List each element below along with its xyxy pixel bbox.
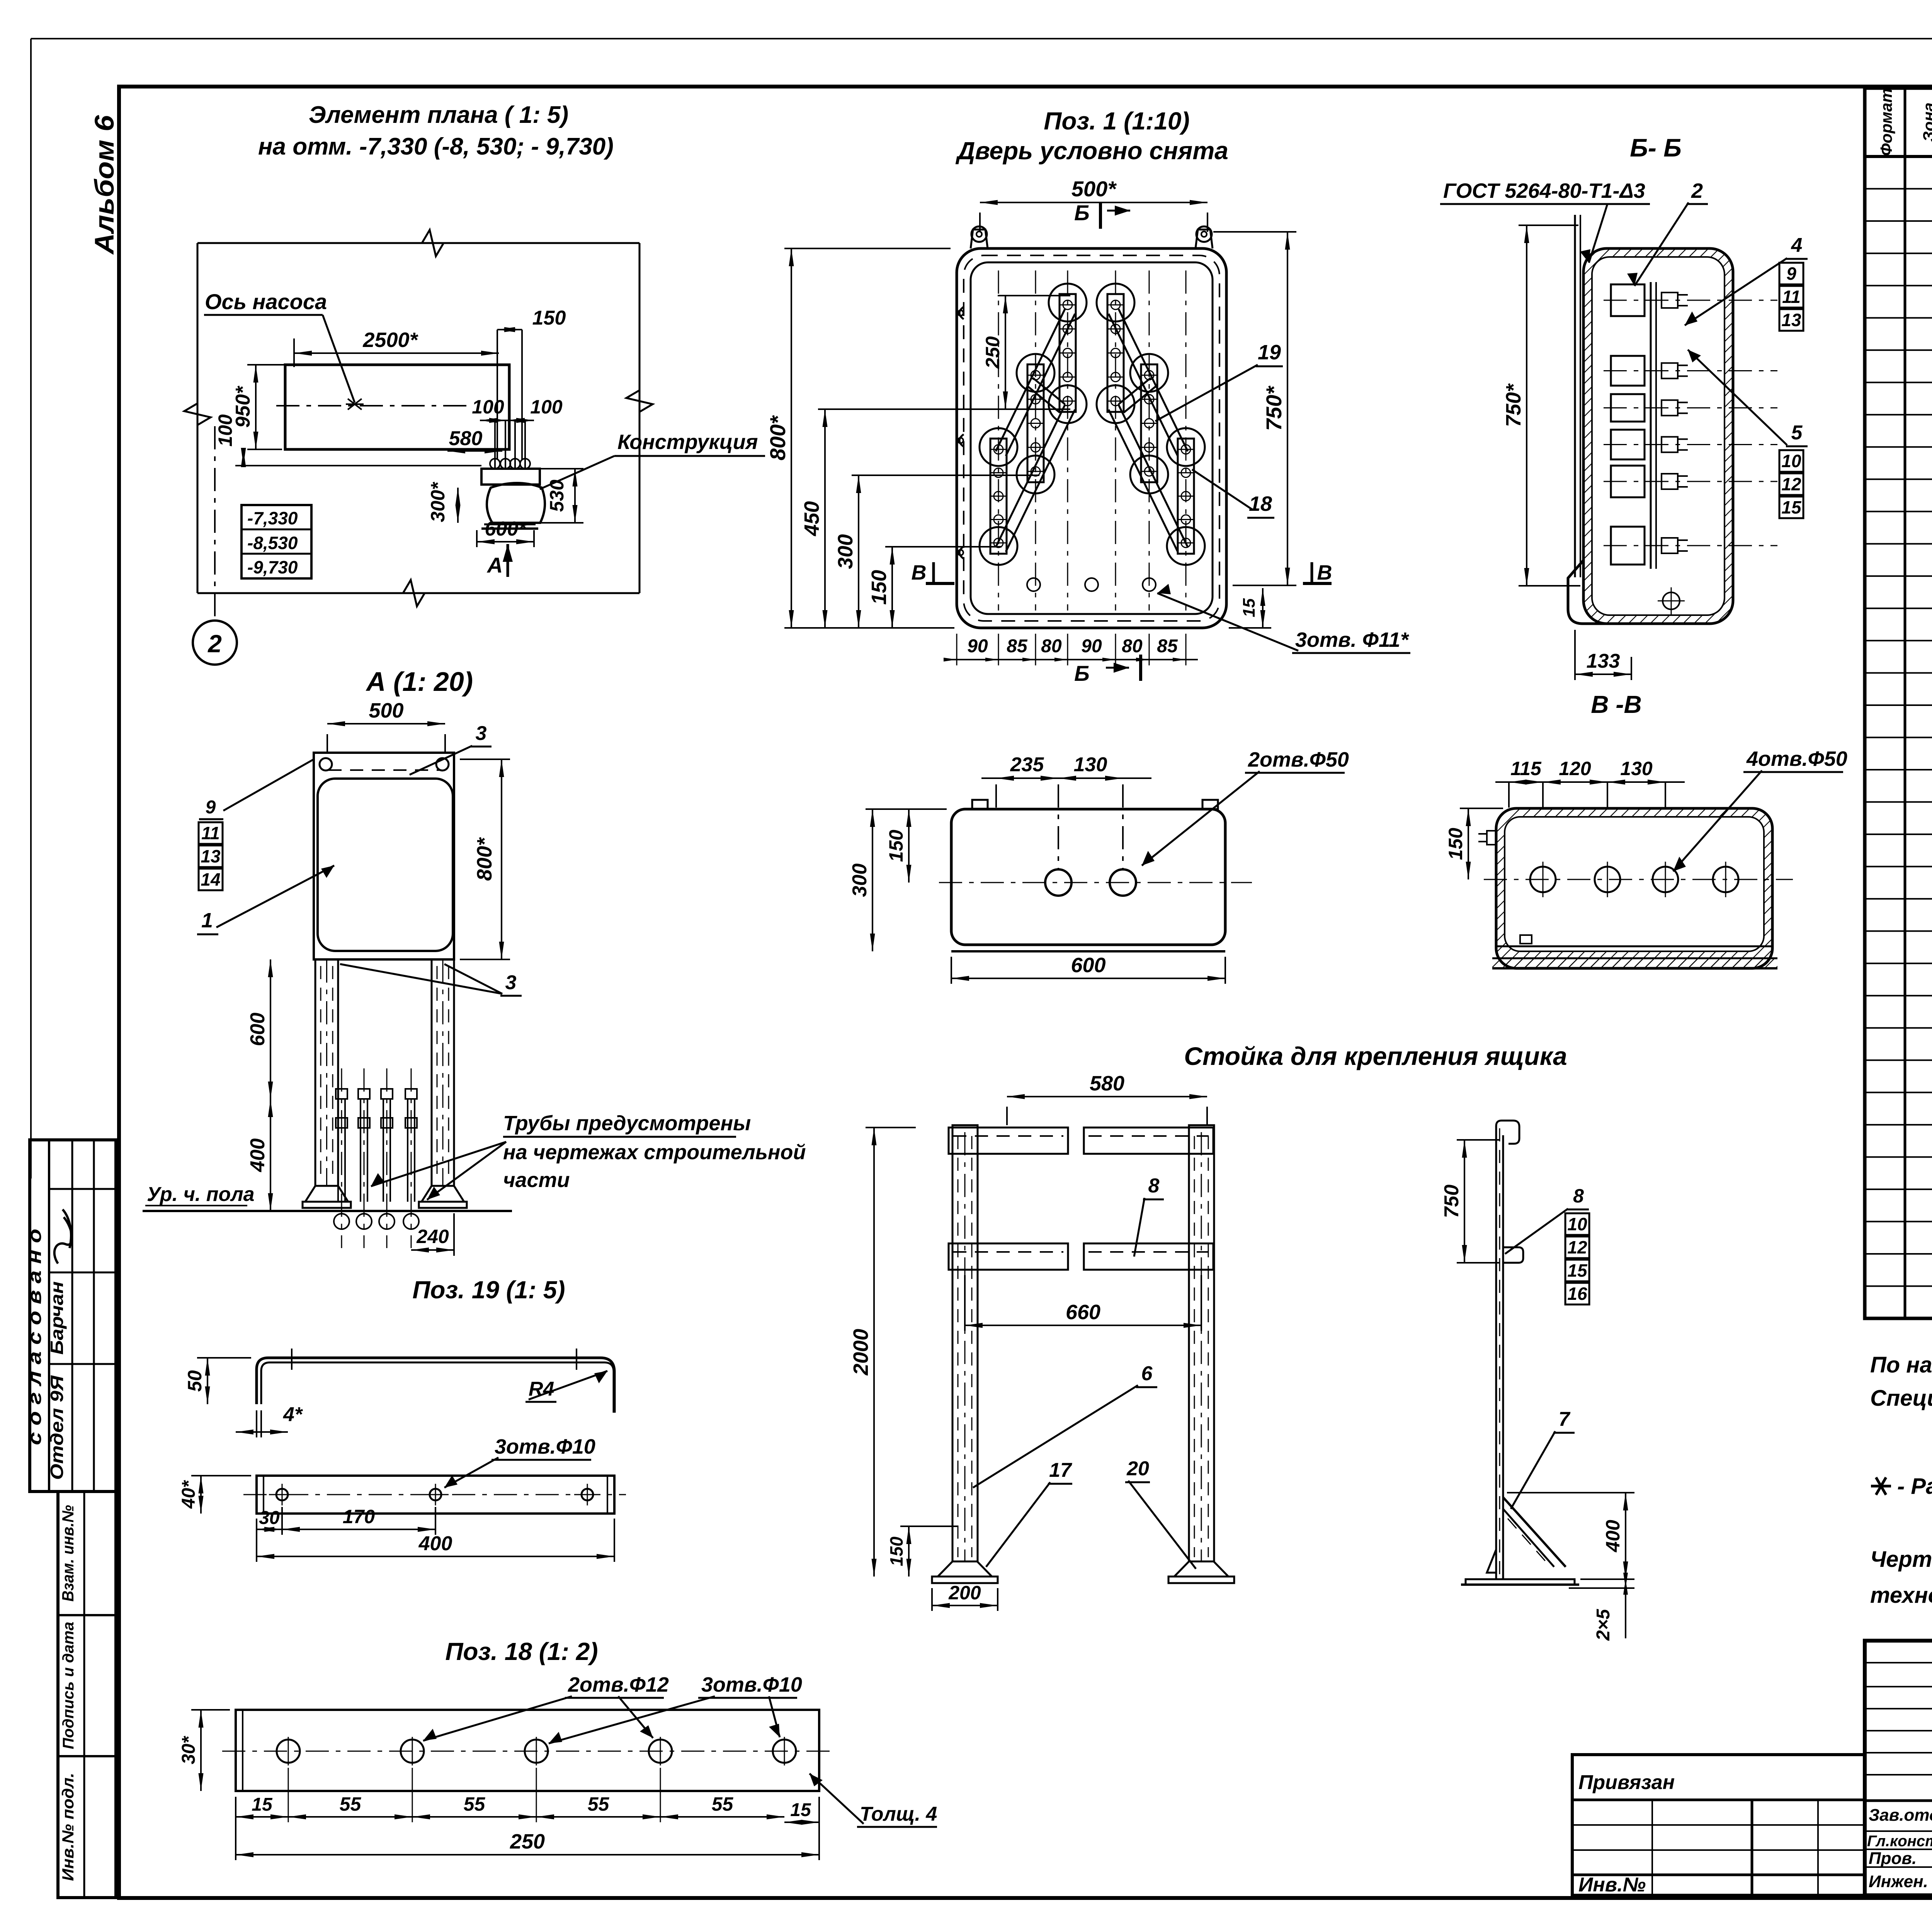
svg-text:600*: 600* <box>485 518 527 540</box>
svg-text:150: 150 <box>867 570 891 605</box>
svg-text:90: 90 <box>967 636 988 656</box>
svg-text:12: 12 <box>1781 474 1801 494</box>
svg-text:750*: 750* <box>1502 383 1525 427</box>
svg-text:технологическим бюро НПО„ Эл: технологическим бюро НПО„ Электромонтаж" <box>1870 1583 1932 1608</box>
svg-text:Взам. инв.№: Взам. инв.№ <box>59 1505 77 1602</box>
dim 100 left <box>243 449 244 466</box>
svg-text:Подпись и дата: Подпись и дата <box>60 1622 77 1749</box>
pump support block <box>487 483 545 523</box>
svg-text:Инв.№: Инв.№ <box>1578 1874 1646 1896</box>
svg-text:9: 9 <box>206 797 216 818</box>
svg-text:-7,330: -7,330 <box>247 508 298 528</box>
bracket plate <box>481 469 540 485</box>
svg-text:55: 55 <box>340 1793 362 1815</box>
svg-text:2500*: 2500* <box>362 328 418 352</box>
svg-text:100: 100 <box>214 414 236 447</box>
svg-text:Формат: Формат <box>1877 88 1895 156</box>
svg-text:17: 17 <box>1049 1459 1072 1481</box>
svg-text:80: 80 <box>1122 636 1143 656</box>
dim 600 <box>477 541 534 543</box>
svg-text:Спецификация приведена для: Спецификация приведена для одной констру… <box>1870 1386 1932 1411</box>
svg-text:- Размеры для справок: - Размеры для справок <box>1897 1474 1932 1499</box>
svg-text:Ось насоса: Ось насоса <box>205 289 327 314</box>
svg-text:100: 100 <box>530 396 563 418</box>
svg-text:600: 600 <box>247 1013 269 1046</box>
svg-text:R4: R4 <box>529 1378 554 1400</box>
svg-text:Трубы предусмотрены: Трубы предусмотрены <box>503 1112 751 1135</box>
bracket bolts <box>494 420 496 469</box>
svg-text:Элемент плана ( 1: 5): Элемент плана ( 1: 5) <box>309 102 568 128</box>
svg-text:А (1: 20): А (1: 20) <box>366 667 473 697</box>
svg-text:3отв. Ф11*: 3отв. Ф11* <box>1295 628 1410 651</box>
svg-text:2отв.Ф50: 2отв.Ф50 <box>1248 748 1349 771</box>
svg-text:Отдел 9Я: Отдел 9Я <box>47 1375 67 1480</box>
insulator strips with end circles <box>980 428 1017 466</box>
dims 100 100 <box>480 420 534 421</box>
svg-text:800*: 800* <box>473 837 496 881</box>
svg-text:16: 16 <box>1567 1284 1587 1304</box>
svg-text:Б- Б: Б- Б <box>1630 133 1682 162</box>
svg-text:4: 4 <box>1791 234 1803 257</box>
dim 300 <box>457 488 459 523</box>
svg-text:150: 150 <box>885 830 907 862</box>
outer thin sheet border <box>31 38 1932 39</box>
svg-text:10: 10 <box>1567 1214 1587 1234</box>
svg-text:Б: Б <box>1074 661 1090 685</box>
svg-text:30: 30 <box>259 1508 280 1528</box>
svg-text:235: 235 <box>1010 753 1044 776</box>
svg-text:7: 7 <box>1559 1408 1571 1430</box>
svg-text:80: 80 <box>1041 636 1062 656</box>
svg-text:4отв.Ф50: 4отв.Ф50 <box>1746 747 1847 770</box>
svg-text:150: 150 <box>1445 828 1466 860</box>
svg-text:8: 8 <box>1148 1175 1160 1197</box>
title block main <box>1865 1641 1932 1895</box>
svg-text:250: 250 <box>510 1830 545 1853</box>
svg-text:55: 55 <box>588 1793 610 1815</box>
node circle 2 <box>214 426 216 620</box>
svg-text:части: части <box>503 1168 570 1192</box>
svg-text:300: 300 <box>849 864 871 897</box>
svg-text:В: В <box>912 561 927 584</box>
svg-text:580: 580 <box>449 427 483 450</box>
svg-text:130: 130 <box>1620 758 1653 779</box>
svg-text:Поз. 18 (1: 2): Поз. 18 (1: 2) <box>445 1638 598 1665</box>
svg-text:2: 2 <box>1691 179 1703 202</box>
svg-text:15: 15 <box>1240 598 1259 617</box>
svg-text:3: 3 <box>505 971 517 994</box>
elevation marks table <box>241 505 311 578</box>
svg-text:800*: 800* <box>765 415 790 460</box>
svg-text:Барчан: Барчан <box>47 1281 67 1355</box>
svg-text:14: 14 <box>201 869 220 889</box>
reference-sizes star note <box>1871 1485 1891 1488</box>
svg-text:450: 450 <box>800 501 823 536</box>
left inventory strip <box>58 1492 116 1898</box>
svg-text:с о г л а с о в а н о: с о г л а с о в а н о <box>25 1229 45 1445</box>
dim 2500 <box>294 352 499 354</box>
svg-text:на чертежах строительной: на чертежах строительной <box>503 1141 806 1164</box>
svg-text:ГОСТ 5264-80-Т1-Δ3: ГОСТ 5264-80-Т1-Δ3 <box>1443 179 1645 202</box>
svg-text:Гл.констр: Гл.констр <box>1867 1833 1932 1850</box>
svg-text:19: 19 <box>1258 341 1281 364</box>
svg-text:500*: 500* <box>1071 177 1117 201</box>
svg-text:55: 55 <box>712 1793 734 1815</box>
svg-text:150: 150 <box>532 307 566 329</box>
svg-text:150: 150 <box>886 1536 906 1566</box>
svg-text:600: 600 <box>1071 954 1105 977</box>
view A 1:20 box on legs <box>327 723 445 724</box>
svg-text:Альбом 6: Альбом 6 <box>89 115 119 255</box>
dim 150 top right <box>497 329 522 330</box>
svg-text:85: 85 <box>1157 636 1178 656</box>
svg-text:Дверь условно снята: Дверь условно снята <box>955 137 1228 165</box>
dim 950 <box>255 365 257 449</box>
svg-text:1: 1 <box>201 909 213 932</box>
svg-text:А: А <box>486 553 503 577</box>
svg-text:18: 18 <box>1249 492 1272 515</box>
svg-text:2000: 2000 <box>849 1329 872 1376</box>
svg-text:3: 3 <box>476 722 487 745</box>
svg-text:55: 55 <box>464 1793 486 1815</box>
svg-text:9: 9 <box>1786 264 1796 284</box>
svg-text:Конструкция: Конструкция <box>617 430 758 454</box>
svg-text:500: 500 <box>369 699 403 722</box>
svg-text:13: 13 <box>201 846 221 866</box>
svg-text:5: 5 <box>1791 422 1803 444</box>
svg-text:10: 10 <box>1781 451 1801 471</box>
view stand side <box>1495 1135 1497 1579</box>
svg-text:Толщ. 4: Толщ. 4 <box>860 1803 937 1825</box>
svg-text:6: 6 <box>1141 1362 1153 1385</box>
svg-text:400: 400 <box>247 1138 269 1172</box>
svg-text:133: 133 <box>1587 650 1620 672</box>
svg-text:-8,530: -8,530 <box>247 533 298 553</box>
svg-text:40*: 40* <box>179 1480 199 1509</box>
svg-text:12: 12 <box>1567 1237 1587 1257</box>
svg-text:В -В: В -В <box>1591 690 1642 718</box>
svg-text:-9,730: -9,730 <box>247 557 298 577</box>
svg-text:15: 15 <box>1781 497 1802 517</box>
svg-text:2: 2 <box>207 630 222 658</box>
svg-text:11: 11 <box>1782 287 1801 307</box>
svg-text:30*: 30* <box>179 1736 199 1764</box>
svg-text:20: 20 <box>1126 1458 1149 1480</box>
svg-text:750*: 750* <box>1262 386 1286 431</box>
svg-text:Поз. 19 (1: 5): Поз. 19 (1: 5) <box>412 1276 565 1304</box>
svg-text:Зав.отд.: Зав.отд. <box>1869 1806 1932 1825</box>
svg-text:8: 8 <box>1573 1185 1584 1207</box>
svg-text:90: 90 <box>1081 636 1102 656</box>
svg-text:15: 15 <box>790 1800 811 1820</box>
svg-text:50: 50 <box>184 1370 206 1392</box>
svg-text:2отв.Ф12: 2отв.Ф12 <box>568 1673 669 1696</box>
svg-text:85: 85 <box>1007 636 1028 656</box>
specification table <box>1865 88 1932 1318</box>
svg-text:120: 120 <box>1559 758 1591 779</box>
svg-text:Зона: Зона <box>1920 102 1932 141</box>
svg-text:115: 115 <box>1510 758 1542 779</box>
svg-text:660: 660 <box>1066 1301 1100 1324</box>
svg-text:Ур. ч. пола: Ур. ч. пола <box>147 1183 255 1206</box>
svg-text:170: 170 <box>343 1506 375 1527</box>
svg-text:240: 240 <box>416 1226 449 1247</box>
svg-text:300*: 300* <box>427 481 449 522</box>
left approval strip <box>30 1140 116 1492</box>
pump outline <box>285 365 509 449</box>
svg-text:11: 11 <box>201 823 220 843</box>
plan boundary with breaks <box>197 242 639 244</box>
svg-text:200: 200 <box>948 1582 981 1604</box>
svg-text:250: 250 <box>982 336 1003 369</box>
svg-text:300: 300 <box>834 534 857 569</box>
svg-text:Б: Б <box>1074 201 1090 225</box>
svg-text:2×5: 2×5 <box>1593 1609 1614 1641</box>
svg-text:13: 13 <box>1781 310 1801 330</box>
svg-text:Поз. 1 (1:10): Поз. 1 (1:10) <box>1044 107 1189 135</box>
svg-text:Чертеж разработан Новосибирс: Чертеж разработан Новосибирским проектно… <box>1870 1547 1932 1572</box>
svg-text:750: 750 <box>1440 1185 1463 1218</box>
svg-text:Привязан: Привязан <box>1578 1771 1675 1794</box>
dim 530 <box>574 469 576 523</box>
svg-text:3отв.Ф10: 3отв.Ф10 <box>701 1673 802 1696</box>
svg-text:4*: 4* <box>283 1403 303 1426</box>
svg-text:400: 400 <box>418 1532 452 1555</box>
svg-text:По настоящему чертежу изгот: По настоящему чертежу изготовить три кон… <box>1870 1352 1932 1378</box>
svg-text:100: 100 <box>472 396 504 418</box>
svg-text:580: 580 <box>1090 1072 1124 1095</box>
svg-text:Инжен.: Инжен. <box>1869 1872 1928 1891</box>
svg-text:Инв.№ подл.: Инв.№ подл. <box>59 1773 77 1881</box>
svg-text:3отв.Ф10: 3отв.Ф10 <box>495 1435 595 1458</box>
svg-text:на отм. -7,330 (-8, 530; - 9,: на отм. -7,330 (-8, 530; - 9,730) <box>258 133 614 160</box>
svg-text:400: 400 <box>1602 1520 1624 1553</box>
svg-text:15: 15 <box>252 1794 273 1815</box>
svg-text:В: В <box>1317 561 1332 584</box>
diagonal straps (skoba) <box>996 309 1065 451</box>
svg-text:130: 130 <box>1074 753 1107 776</box>
svg-text:Стойка для крепления ящика: Стойка для крепления ящика <box>1184 1042 1567 1070</box>
title block annex (left small table) <box>1572 1755 1865 1895</box>
svg-text:Пров.: Пров. <box>1869 1849 1917 1868</box>
svg-text:15: 15 <box>1567 1260 1588 1281</box>
